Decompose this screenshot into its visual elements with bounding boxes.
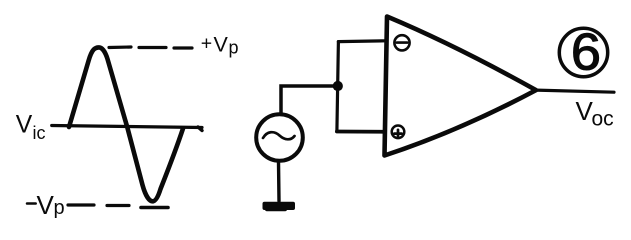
svg-text:V: V [214, 33, 229, 57]
svg-text:p: p [54, 197, 65, 219]
svg-text:6: 6 [571, 23, 601, 81]
svg-text:oc: oc [592, 108, 614, 131]
svg-text:+: + [201, 33, 212, 55]
svg-text:V: V [16, 112, 33, 139]
svg-text:p: p [229, 38, 239, 58]
svg-text:ic: ic [33, 123, 46, 143]
svg-text:V: V [37, 190, 55, 220]
